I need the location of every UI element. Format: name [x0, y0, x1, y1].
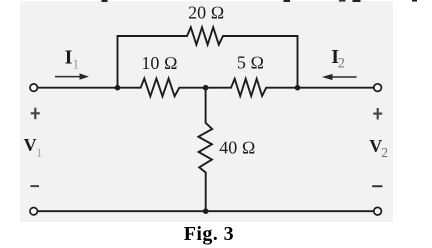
svg-text:Fig. 3: Fig. 3 [184, 223, 234, 245]
svg-text:2: 2 [381, 145, 388, 160]
svg-text:2: 2 [338, 55, 345, 71]
svg-text:5 Ω: 5 Ω [237, 52, 264, 72]
svg-text:10 Ω: 10 Ω [141, 53, 177, 73]
svg-text:V: V [24, 135, 37, 155]
svg-text:40 Ω: 40 Ω [219, 138, 255, 158]
svg-text:1: 1 [36, 145, 43, 160]
svg-text:20 Ω: 20 Ω [188, 3, 224, 23]
svg-text:1: 1 [72, 57, 79, 72]
